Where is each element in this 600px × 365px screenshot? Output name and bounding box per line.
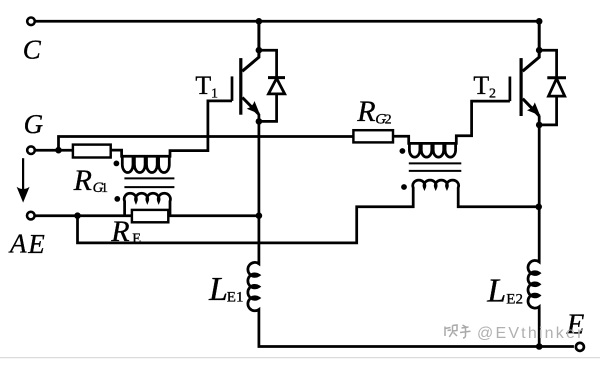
arrow G to AE [22, 158, 24, 191]
svg-text:L: L [208, 271, 228, 308]
svg-text:1: 1 [101, 181, 108, 196]
inductor LE1 and bottom rail [248, 216, 574, 347]
transistor T1 emitter slant [242, 98, 259, 115]
svg-text:R: R [356, 95, 375, 128]
node: AE junction dot [74, 212, 81, 219]
node: emitter-AE junction dot [256, 212, 263, 219]
wire G to RG1 [35, 149, 73, 152]
resistor RG1 [73, 145, 111, 158]
transistor T2 (IGBT) main bar [519, 58, 522, 116]
wire T2 emitter down [538, 116, 541, 207]
winding W1 bottom (parallel with RE) [124, 193, 170, 215]
top rail C to T2 [35, 20, 539, 23]
resistor RG2 [353, 130, 393, 142]
faint bottom border line [0, 357, 600, 359]
diode D1 triangle [269, 78, 285, 94]
polarity dot W1 top [114, 161, 120, 167]
transistor T1 gate bar [231, 76, 234, 101]
polarity dot W2 bottom [401, 184, 407, 190]
polarity dot W2 top [400, 148, 406, 154]
wire RG2 to winding W2 top, to T2 gate [393, 101, 510, 143]
wire T2 collector [523, 21, 540, 71]
wire AE to RE [35, 214, 132, 217]
diode D1 branch top connector [259, 50, 277, 77]
svg-text:T: T [195, 71, 211, 100]
svg-text:E: E [27, 229, 45, 259]
wire RG1 to winding W1 top, through gate riser to T1 gate [111, 101, 232, 156]
svg-text:E: E [132, 231, 141, 247]
transistor T2 emitter slant [523, 99, 540, 116]
terminal E [576, 343, 584, 351]
svg-text:1: 1 [211, 87, 218, 102]
resistor RE [132, 210, 168, 222]
svg-text:G: G [24, 109, 43, 139]
node: T2 collector junction dot on rail [536, 18, 543, 25]
svg-text:E2: E2 [506, 291, 523, 307]
node: T1 collector junction dot on rail [256, 18, 263, 25]
node: T1 collector-diode junction [256, 47, 263, 54]
transistor T1 (IGBT) main bar [239, 58, 242, 115]
wire T1 emitter down to AE line [258, 114, 261, 216]
wire T1 collector [242, 21, 259, 71]
winding W1 top loops [122, 156, 169, 173]
node: T2 collector-diode junction [536, 47, 543, 54]
terminal A/E [27, 212, 35, 220]
diode D2 cathode bar [547, 76, 566, 79]
transistor T1 emitter arrowhead [247, 101, 260, 114]
svg-text:L: L [486, 273, 506, 310]
inductor LE2 [528, 207, 539, 347]
wire G bus up and right to RG2 [59, 137, 354, 151]
diode D1 cathode bar [268, 76, 285, 79]
svg-text:2: 2 [489, 87, 496, 102]
svg-text:T: T [473, 71, 489, 100]
node: G junction dot [55, 147, 62, 154]
node: T1 emitter-diode junction [256, 118, 263, 125]
svg-text:@EVthinker: @EVthinker [477, 325, 585, 342]
transformer core T1 [124, 177, 174, 179]
winding W2 top loops [409, 143, 455, 157]
svg-text:R: R [73, 164, 92, 197]
wire lower bus from AE down and to winding W2 bottom, then to T2 emitter [78, 180, 539, 243]
node: W2-T2 emitter junction [535, 204, 542, 211]
wire RE to T1 emitter line [168, 214, 259, 217]
node: T2 emitter-diode junction [536, 122, 543, 129]
diode D2 bottom connector [539, 96, 556, 125]
transformer core T2 [409, 162, 462, 164]
diode D2 triangle [549, 79, 565, 97]
transistor T2 emitter arrowhead [527, 102, 540, 115]
svg-text:A: A [8, 229, 27, 259]
diode D2 branch top connector [539, 50, 556, 78]
terminal C [27, 18, 35, 26]
svg-text:E1: E1 [227, 290, 244, 306]
transistor T2 gate bar [509, 77, 512, 102]
polarity dot W1 bottom [114, 196, 120, 202]
svg-text:C: C [23, 35, 42, 65]
watermark [445, 325, 471, 338]
diode D1 bottom connector [259, 94, 277, 122]
node: LE2-rail junction [536, 343, 543, 350]
terminal G [27, 146, 35, 154]
svg-text:2: 2 [385, 113, 392, 128]
